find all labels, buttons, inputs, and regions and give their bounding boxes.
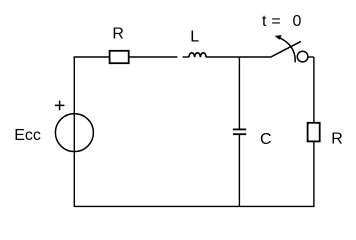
svg-text:0: 0 — [293, 13, 302, 30]
svg-text:C: C — [260, 131, 272, 148]
svg-text:R: R — [331, 130, 343, 147]
svg-text:=: = — [271, 13, 280, 30]
svg-text:t: t — [262, 13, 267, 30]
svg-text:Ecc: Ecc — [14, 127, 41, 144]
svg-text:L: L — [190, 29, 199, 46]
svg-text:R: R — [112, 26, 124, 43]
